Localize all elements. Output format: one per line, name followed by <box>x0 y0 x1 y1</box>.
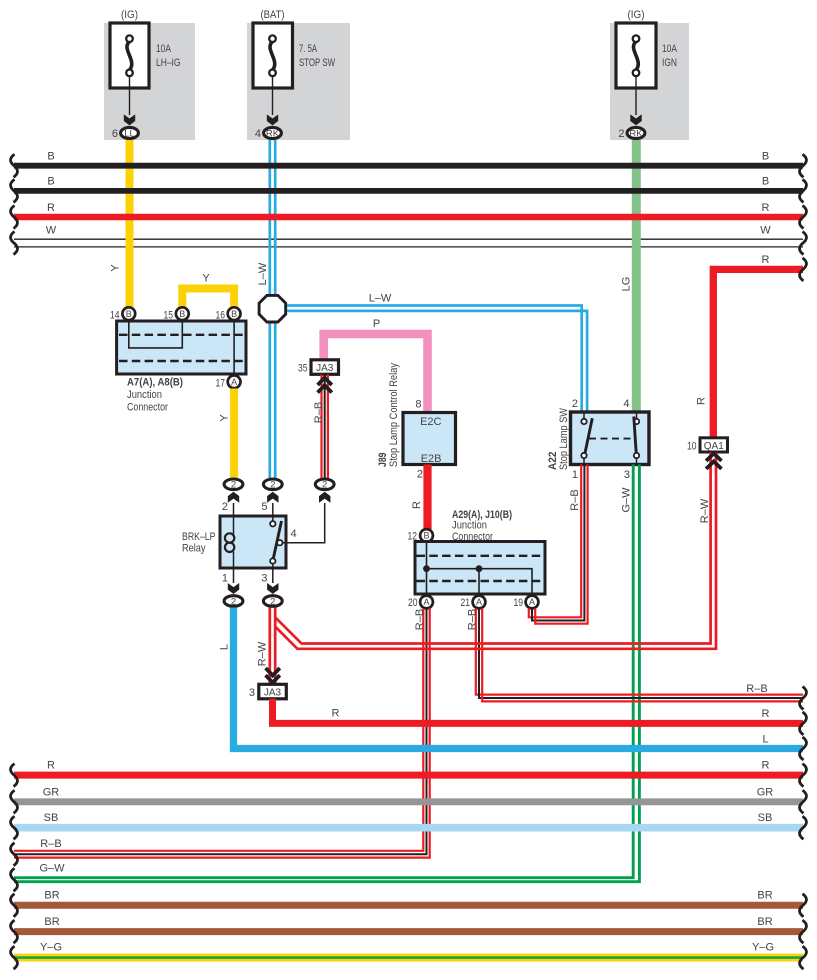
svg-text:B: B <box>762 176 769 188</box>
svg-text:LL: LL <box>124 129 135 140</box>
wire L from relay pin 1 to right edge <box>234 608 804 749</box>
svg-text:14: 14 <box>110 310 120 322</box>
svg-text:L–W: L–W <box>369 293 392 305</box>
wire Y from pin 17 to relay <box>230 389 238 479</box>
svg-text:2: 2 <box>270 480 275 491</box>
svg-text:L: L <box>219 644 231 650</box>
svg-text:Connector: Connector <box>127 402 168 414</box>
svg-text:GR: GR <box>757 787 774 799</box>
svg-text:STOP SW: STOP SW <box>299 57 335 69</box>
connector oval below relay pin 1 <box>228 583 239 594</box>
svg-text:R: R <box>762 708 770 720</box>
svg-text:Stop Lamp SW: Stop Lamp SW <box>558 407 570 470</box>
connector oval above relay pin 5 <box>263 479 282 490</box>
connector oval above relay pin 4 <box>315 479 334 490</box>
svg-text:B: B <box>762 151 769 163</box>
svg-text:15: 15 <box>164 310 174 322</box>
wire relay pin 4 to oval <box>283 503 325 543</box>
svg-text:P: P <box>373 318 380 330</box>
wire Y loop junction pins 15-16 <box>182 289 234 314</box>
svg-text:A7(A), A8(B): A7(A), A8(B) <box>127 377 183 389</box>
relay box <box>220 516 286 568</box>
svg-text:Junction: Junction <box>127 389 162 401</box>
svg-text:A: A <box>529 597 535 607</box>
wire LG vertical from F3 down to A22 pin 4 <box>632 140 641 413</box>
svg-text:(IG): (IG) <box>121 9 138 21</box>
wire R-W from relay pin 3 branch to QA1 <box>275 453 710 644</box>
svg-text:BR: BR <box>44 890 59 902</box>
svg-text:R: R <box>47 202 55 214</box>
svg-text:BR: BR <box>757 916 772 928</box>
svg-text:W: W <box>46 225 57 237</box>
svg-text:2: 2 <box>417 469 423 481</box>
junction dot <box>423 565 430 572</box>
svg-text:R: R <box>762 760 770 772</box>
svg-text:R: R <box>411 501 423 509</box>
wire G-W from A22 pin 3 down to G-W bus <box>14 465 633 878</box>
svg-text:B: B <box>47 151 54 163</box>
bus R (top) <box>14 214 803 220</box>
junction dot <box>476 565 483 572</box>
svg-text:10A: 10A <box>156 43 172 55</box>
svg-text:RK: RK <box>629 129 643 140</box>
wire Y vertical from F1 to junction pin 14 <box>126 140 134 309</box>
bus R (bottom) <box>14 772 803 779</box>
svg-text:B: B <box>126 309 132 319</box>
svg-text:JA3: JA3 <box>264 687 282 698</box>
svg-text:(IG): (IG) <box>628 9 645 21</box>
svg-text:2: 2 <box>270 596 275 607</box>
svg-text:R–B: R–B <box>414 609 426 630</box>
svg-text:IGN: IGN <box>662 57 677 69</box>
svg-text:2: 2 <box>572 398 578 410</box>
svg-text:L–W: L–W <box>257 262 269 285</box>
svg-text:R–B: R–B <box>313 402 325 423</box>
svg-text:B: B <box>423 531 429 541</box>
svg-text:(BAT): (BAT) <box>261 9 285 21</box>
svg-text:Relay: Relay <box>182 543 206 555</box>
switch A22 stop lamp SW <box>571 412 650 465</box>
svg-text:L: L <box>762 734 768 746</box>
bus Y-G <box>14 954 803 962</box>
wire R from right edge to QA1 <box>713 269 803 438</box>
svg-text:10: 10 <box>687 441 697 453</box>
svg-text:R–W: R–W <box>257 641 269 666</box>
svg-text:2: 2 <box>231 480 236 491</box>
svg-text:LG: LG <box>621 277 633 292</box>
svg-text:G–W: G–W <box>39 863 65 875</box>
junction connector A7(A), A8(B) <box>117 321 246 374</box>
svg-text:BR: BR <box>757 890 772 902</box>
svg-text:SB: SB <box>758 812 773 824</box>
svg-text:Junction: Junction <box>452 520 487 532</box>
svg-text:R–B: R–B <box>746 683 767 695</box>
svg-text:2: 2 <box>618 128 624 140</box>
svg-text:5: 5 <box>261 501 267 513</box>
svg-text:R–B: R–B <box>467 609 479 630</box>
svg-text:A: A <box>476 597 482 607</box>
node octagon junction on L-W wire <box>259 295 286 322</box>
svg-text:2: 2 <box>231 596 236 607</box>
svg-text:7. 5A: 7. 5A <box>299 43 317 55</box>
bus GR <box>14 798 803 805</box>
svg-text:20: 20 <box>408 597 418 609</box>
svg-text:21: 21 <box>461 597 471 609</box>
svg-text:1: 1 <box>222 573 228 585</box>
wire R-B from A22 pin 1 to junction pin 19 <box>529 465 581 618</box>
connector oval above relay pin 2 <box>224 479 243 490</box>
svg-text:3: 3 <box>261 573 267 585</box>
wire R from E2B to junction pin 12 <box>423 465 431 530</box>
svg-text:Stop Lamp Control Relay: Stop Lamp Control Relay <box>388 363 400 467</box>
svg-text:17: 17 <box>216 378 226 390</box>
wire P from JA3 to stop lamp control relay <box>324 334 428 413</box>
svg-text:R: R <box>762 254 770 266</box>
svg-text:R: R <box>332 708 340 720</box>
svg-text:G–W: G–W <box>621 487 633 513</box>
svg-text:R: R <box>696 397 708 405</box>
svg-text:BRK–LP: BRK–LP <box>182 531 216 543</box>
bus BR (first) <box>14 902 803 909</box>
svg-text:4: 4 <box>623 398 629 410</box>
svg-text:2: 2 <box>322 480 327 491</box>
svg-text:Y: Y <box>219 414 231 422</box>
svg-text:4: 4 <box>291 528 297 540</box>
svg-text:B: B <box>47 176 54 188</box>
bus BR (second) <box>14 928 803 935</box>
svg-text:R–B: R–B <box>40 838 61 850</box>
svg-text:B: B <box>231 309 237 319</box>
chevron arrows into QA1 <box>706 453 721 461</box>
svg-text:19: 19 <box>514 597 524 609</box>
svg-text:Y–G: Y–G <box>40 942 62 954</box>
svg-text:QA1: QA1 <box>704 441 724 452</box>
svg-text:GR: GR <box>43 787 60 799</box>
wire L-W horizontal from octagon to A22 pin 2 <box>287 306 582 414</box>
svg-text:B: B <box>179 309 185 319</box>
svg-text:3: 3 <box>624 469 630 481</box>
bus B (second) <box>14 188 803 194</box>
svg-text:Y: Y <box>202 273 210 285</box>
svg-text:35: 35 <box>298 363 308 375</box>
svg-text:3: 3 <box>249 687 255 699</box>
svg-text:4: 4 <box>255 128 261 140</box>
wire L-W vertical from F2 down to relay pin 5 <box>268 140 271 478</box>
chevron arrows into JA3 35 <box>318 378 332 385</box>
svg-text:E2B: E2B <box>421 453 442 465</box>
wire R-B from junction pin 20 down to R-B bus <box>14 608 423 851</box>
wire R-B from JA3 35 to relay pin 4 <box>320 375 322 479</box>
svg-text:SB: SB <box>44 812 59 824</box>
chevron arrows into JA3 3 <box>266 668 280 675</box>
wire R-W from relay pin 3 to JA3 <box>268 608 271 685</box>
relay switch <box>272 503 274 521</box>
svg-text:R: R <box>47 760 55 772</box>
svg-text:R–W: R–W <box>699 498 711 523</box>
svg-text:R–B: R–B <box>569 489 581 510</box>
svg-text:6: 6 <box>112 128 118 140</box>
bus SB <box>14 824 803 832</box>
bus B (top) <box>14 163 803 169</box>
svg-text:A: A <box>423 597 429 607</box>
svg-text:16: 16 <box>216 310 226 322</box>
svg-text:R: R <box>762 202 770 214</box>
svg-text:BR: BR <box>44 916 59 928</box>
svg-text:1: 1 <box>572 469 578 481</box>
wire R-B from junction pin 21 to right edge <box>476 608 803 694</box>
wire R from JA3 to right edge <box>273 699 804 724</box>
svg-text:Y–G: Y–G <box>752 942 774 954</box>
svg-text:W: W <box>760 225 771 237</box>
svg-text:2: 2 <box>222 501 228 513</box>
relay J89 stop lamp control relay E2C/E2B <box>403 413 456 465</box>
svg-text:RK: RK <box>266 129 280 140</box>
svg-text:A: A <box>231 377 237 387</box>
relay coil <box>233 503 235 534</box>
svg-text:E2C: E2C <box>420 416 441 428</box>
svg-text:JA3: JA3 <box>316 363 334 374</box>
svg-text:10A: 10A <box>662 43 678 55</box>
connector oval below relay pin 3 <box>267 583 278 594</box>
svg-text:Y: Y <box>110 264 122 272</box>
svg-text:8: 8 <box>415 399 421 411</box>
svg-text:LH–IG: LH–IG <box>156 57 181 69</box>
bus W (white wire, two thin lines) <box>14 238 803 240</box>
